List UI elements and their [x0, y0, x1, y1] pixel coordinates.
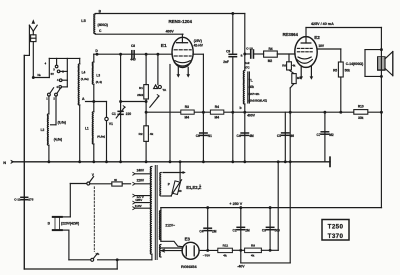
svg-text:R3: R3	[185, 105, 189, 109]
svg-text:500: 500	[275, 229, 281, 233]
switch Vb	[91, 252, 100, 261]
label (25V) 42-HV	[194, 39, 204, 48]
wire plate feed 400V	[146, 111, 382, 114]
svg-text:(2h100Ω|0,4Z): (2h100Ω|0,4Z)	[249, 98, 267, 102]
band switch poles	[46, 88, 61, 125]
coil L5	[81, 10, 108, 34]
svg-text:N1: N1	[208, 134, 212, 138]
wire antenna to band switch	[32, 42, 34, 78]
wire ground to C3 junction	[277, 162, 279, 251]
svg-text:b: b	[240, 106, 242, 110]
node a	[241, 53, 247, 58]
tube E1	[161, 34, 193, 67]
svg-text:C-14(600Ω): C-14(600Ω)	[346, 62, 364, 66]
svg-text:(220V|42W): (220V|42W)	[61, 222, 79, 226]
resistor R10 30k	[354, 105, 368, 120]
resistor R6 upper	[282, 54, 296, 70]
svg-text:P: P	[168, 182, 171, 186]
antenna A terminal	[29, 19, 37, 35]
transformer primary winding	[150, 167, 152, 260]
resistor R4 M4	[210, 105, 223, 120]
svg-text:30k: 30k	[358, 116, 364, 120]
svg-text:1: 1	[46, 96, 48, 100]
svg-text:T370: T370	[328, 233, 344, 240]
svg-text:V1: V1	[109, 122, 113, 126]
antenna series capacitor	[31, 35, 36, 42]
svg-text:4: 4	[56, 85, 58, 89]
svg-text:N47=2h: N47=2h	[249, 92, 260, 96]
loudspeaker C-14 600ohm	[346, 50, 393, 77]
label (3,6a)	[58, 120, 66, 124]
resistor R9 4k	[245, 243, 279, 257]
resistor R11 4k	[218, 243, 245, 257]
svg-text:C9: C9	[226, 50, 230, 54]
svg-text:RGN354: RGN354	[181, 264, 197, 269]
wire C1 to R-divider	[119, 100, 147, 103]
switch V	[87, 173, 95, 185]
transformer HT secondary 212V	[159, 208, 182, 247]
wire node A	[86, 84, 107, 117]
svg-text:M6: M6	[290, 134, 295, 138]
svg-text:125V: 125V	[135, 198, 142, 202]
svg-text:220V: 220V	[137, 179, 145, 183]
wire plug bottom pole to switch Vb	[58, 230, 91, 260]
svg-text:3: 3	[53, 68, 55, 72]
svg-text:L5: L5	[81, 19, 85, 23]
model box T250 T370	[322, 220, 349, 241]
svg-text:(1,3a): (1,3a)	[81, 77, 89, 81]
svg-text:110V: 110V	[135, 204, 142, 208]
label RENS-1204	[169, 19, 193, 24]
wire B plate supply top	[95, 12, 245, 15]
svg-text:5V: 5V	[51, 72, 54, 76]
capacitor C7 M2	[317, 112, 334, 162]
svg-text:440: 440	[130, 58, 136, 62]
svg-text:87C: 87C	[244, 66, 250, 70]
svg-text:R4: R4	[268, 47, 272, 51]
svg-text:42-HV: 42-HV	[194, 44, 204, 48]
svg-text:C8: C8	[131, 44, 135, 48]
svg-text:2: 2	[53, 96, 55, 100]
svg-text:RENS-1204: RENS-1204	[169, 19, 193, 24]
resistor R4 M2 grid E2	[264, 47, 296, 63]
svg-text:2M: 2M	[212, 230, 217, 234]
pickup jack TA	[150, 54, 167, 107]
svg-text:Si: Si	[114, 178, 117, 182]
switch gang dashed link	[93, 187, 95, 252]
svg-text:M2: M2	[329, 133, 334, 137]
fuse Si	[112, 178, 131, 186]
E2 heater arrows	[299, 66, 313, 80]
wire E3 cathode	[199, 249, 218, 252]
svg-text:A: A	[82, 97, 85, 101]
svg-text:30: 30	[178, 189, 182, 193]
svg-text:E1,E2,Ž: E1,E2,Ž	[186, 185, 202, 190]
label RES964	[283, 32, 299, 37]
node b 400V	[240, 104, 256, 118]
svg-text:4k: 4k	[150, 132, 154, 136]
resistor R2 4k	[139, 99, 154, 162]
wire switch Vb to transformer	[98, 258, 152, 261]
transformer primary taps	[133, 169, 151, 210]
tube E2	[295, 28, 320, 68]
capacitor C4 2M	[199, 208, 216, 251]
svg-text:C4: C4	[237, 134, 241, 138]
svg-text:(4,6a): (4,6a)	[54, 138, 62, 142]
svg-text:2n2: 2n2	[245, 61, 250, 65]
label 10V	[318, 44, 325, 48]
capacitor C2 2M	[233, 208, 250, 251]
svg-text:C5: C5	[277, 134, 281, 138]
plus 250V rail	[161, 202, 382, 209]
resistor R1 2M2	[137, 54, 148, 99]
svg-text:(3,4): (3,4)	[96, 80, 102, 84]
svg-text:TL: TL	[249, 79, 253, 83]
wire switch V to fuse	[90, 183, 112, 185]
node A	[82, 97, 95, 103]
svg-text:4k: 4k	[223, 254, 227, 258]
label E1,E2,Z heaters	[186, 185, 202, 190]
tube E3 RGN354	[181, 237, 211, 270]
mains plug S 220V 42W	[47, 216, 79, 231]
switch V1	[105, 117, 113, 162]
svg-text:N: N	[3, 160, 6, 165]
wire right border 425V	[380, 28, 383, 208]
svg-text:C: C	[99, 29, 102, 33]
svg-text:Vb: Vb	[96, 252, 100, 256]
wire grid E1	[94, 53, 172, 56]
svg-text:a: a	[241, 54, 243, 58]
svg-text:RES964: RES964	[283, 32, 299, 37]
svg-text:C4: C4	[199, 230, 203, 234]
capacitor C10 2n2	[244, 46, 263, 69]
svg-text:L4: L4	[82, 71, 86, 75]
svg-text:425V / 40 mA: 425V / 40 mA	[311, 22, 334, 26]
svg-text:C2: C2	[233, 229, 237, 233]
resistor R5 50k	[333, 62, 350, 112]
chassis rail N	[3, 160, 330, 165]
svg-text:T250: T250	[328, 224, 344, 231]
svg-text:R11: R11	[223, 243, 229, 247]
svg-text:-40V: -40V	[237, 264, 245, 268]
svg-text:240V: 240V	[137, 169, 145, 173]
wire bottom return	[24, 260, 117, 269]
svg-text:D: D	[95, 49, 98, 53]
capacitor C-11 275	[14, 55, 33, 269]
capacitor C6 N1	[196, 133, 212, 138]
svg-text:275: 275	[28, 197, 33, 201]
wire L4 bottom to ground	[79, 105, 81, 162]
capacitor C5 M6	[277, 112, 294, 162]
transformer TL	[243, 14, 267, 105]
svg-text:220: 220	[126, 112, 132, 116]
svg-text:(400Ω): (400Ω)	[98, 23, 108, 27]
svg-text:50k: 50k	[345, 69, 351, 73]
svg-text:R10: R10	[358, 105, 364, 109]
svg-text:~70V: ~70V	[203, 254, 211, 258]
transformer core	[155, 166, 157, 260]
coil L4	[78, 58, 88, 105]
svg-text:R5: R5	[333, 69, 337, 73]
capacitor C4 4M	[237, 112, 254, 162]
svg-text:R2: R2	[139, 132, 143, 136]
svg-text:400V: 400V	[247, 114, 256, 118]
svg-text:4: 4	[45, 62, 47, 66]
svg-text:L1: L1	[85, 127, 89, 131]
svg-text:TA: TA	[162, 88, 167, 92]
svg-text:C1: C1	[112, 112, 116, 116]
svg-text:(3,6a): (3,6a)	[58, 120, 66, 124]
svg-text:400V: 400V	[166, 30, 175, 34]
node D	[95, 49, 98, 56]
transformer heater winding E3	[159, 245, 182, 258]
svg-text:E1: E1	[161, 43, 167, 49]
svg-text:40k: 40k	[249, 85, 255, 89]
wire antenna left branch down to mains block	[24, 25, 29, 269]
svg-text:C-10: C-10	[246, 46, 253, 50]
wire E1 cathode to ground	[169, 65, 171, 162]
svg-text:M4: M4	[297, 76, 301, 80]
svg-text:+ 250 V: + 250 V	[229, 202, 242, 206]
svg-text:M4: M4	[215, 116, 220, 120]
svg-text:212V~: 212V~	[165, 223, 175, 227]
band switch contact row	[32, 58, 80, 89]
svg-text:M2: M2	[268, 59, 273, 63]
capacitor C9 2nF	[223, 14, 236, 162]
svg-text:V: V	[92, 173, 95, 177]
svg-text:10V: 10V	[318, 44, 325, 48]
svg-text:(4,6a): (4,6a)	[97, 134, 105, 138]
svg-text:L2: L2	[41, 128, 45, 132]
svg-text:4k: 4k	[251, 254, 255, 258]
svg-text:4k: 4k	[292, 63, 296, 67]
svg-text:E2: E2	[314, 35, 320, 40]
svg-text:M4: M4	[185, 116, 190, 120]
label 400V	[166, 30, 175, 34]
svg-text:C7: C7	[317, 133, 321, 137]
resistor R6 lower M4	[289, 70, 301, 84]
svg-text:№: №	[38, 73, 42, 77]
svg-text:E3: E3	[185, 237, 191, 242]
svg-text:2M2: 2M2	[137, 93, 143, 97]
coil L1	[85, 102, 105, 162]
svg-text:2M: 2M	[245, 229, 250, 233]
wire E2 to R5	[317, 49, 341, 62]
resistor R3 M4	[181, 105, 194, 120]
svg-text:(25V): (25V)	[194, 39, 202, 43]
wire E2 anode 425V	[306, 22, 382, 28]
svg-text:2nF: 2nF	[223, 60, 229, 64]
svg-text:R1: R1	[139, 86, 143, 90]
svg-text:L3: L3	[96, 73, 100, 77]
wire -40V bias	[237, 250, 290, 268]
svg-text:R9: R9	[251, 243, 255, 247]
wire grid bias to -40V	[289, 84, 294, 263]
svg-text:C6: C6	[196, 134, 200, 138]
wire E1 screen	[193, 54, 203, 162]
svg-text:4: 4	[57, 78, 59, 82]
svg-text:4M: 4M	[249, 134, 254, 138]
chassis rail end bar	[329, 157, 331, 166]
wire plug top pole to switch V	[58, 184, 87, 217]
svg-text:R6: R6	[282, 63, 286, 67]
capacitor C8 440	[130, 44, 136, 62]
coil L2	[41, 114, 49, 162]
svg-text:C-11: C-11	[14, 197, 21, 201]
svg-text:R4: R4	[215, 105, 219, 109]
pot P 30	[160, 160, 186, 196]
trimmer capacitor C1 220	[112, 54, 132, 162]
E1 heater arrows	[177, 67, 191, 77]
label (4,6a)	[54, 138, 62, 142]
svg-text:C3: C3	[262, 229, 266, 233]
svg-text:S: S	[47, 222, 50, 226]
capacitor C3 500	[262, 208, 280, 251]
wire C to E1 anode	[95, 33, 183, 35]
coil L3	[92, 54, 102, 84]
